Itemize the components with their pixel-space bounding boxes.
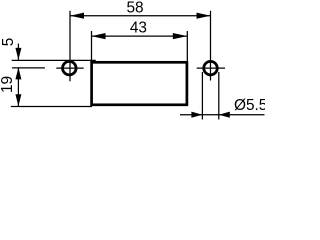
svg-text:5: 5 <box>0 38 17 47</box>
svg-text:58: 58 <box>126 0 143 17</box>
svg-text:Ø5.5: Ø5.5 <box>234 97 265 114</box>
svg-text:43: 43 <box>130 20 147 37</box>
svg-text:19: 19 <box>0 76 16 93</box>
